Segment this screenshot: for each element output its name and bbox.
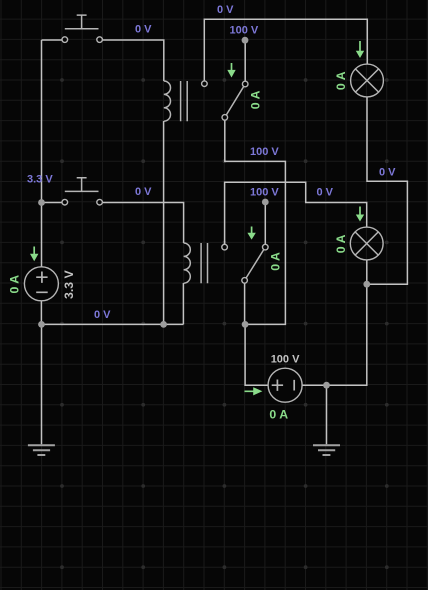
svg-text:0 V: 0 V bbox=[135, 24, 152, 36]
svg-text:0 A: 0 A bbox=[334, 234, 348, 253]
svg-text:100 V: 100 V bbox=[271, 353, 300, 365]
svg-text:0 V: 0 V bbox=[217, 4, 234, 16]
svg-text:0 A: 0 A bbox=[249, 90, 263, 109]
svg-text:0 A: 0 A bbox=[269, 407, 288, 421]
svg-text:3.3 V: 3.3 V bbox=[62, 269, 76, 299]
svg-text:0 V: 0 V bbox=[317, 187, 334, 199]
svg-text:3.3 V: 3.3 V bbox=[27, 174, 53, 186]
svg-text:0 V: 0 V bbox=[135, 186, 152, 198]
svg-text:100 V: 100 V bbox=[250, 146, 279, 158]
svg-text:0 V: 0 V bbox=[94, 309, 111, 321]
svg-text:0 A: 0 A bbox=[8, 275, 22, 294]
svg-text:100 V: 100 V bbox=[230, 24, 259, 36]
svg-text:100 V: 100 V bbox=[250, 187, 279, 199]
svg-text:0 A: 0 A bbox=[334, 71, 348, 90]
svg-text:0 V: 0 V bbox=[379, 167, 396, 179]
svg-text:0 A: 0 A bbox=[268, 252, 282, 271]
